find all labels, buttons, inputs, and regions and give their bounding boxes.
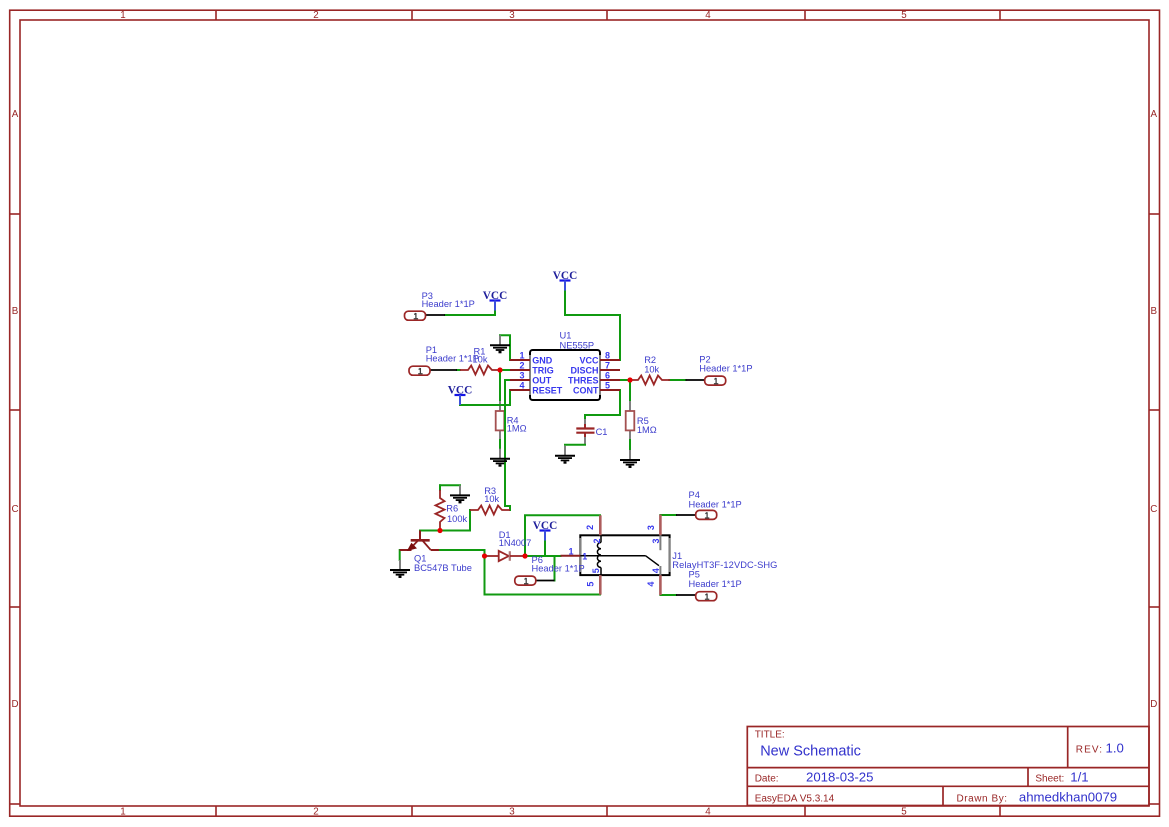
svg-text:2: 2 bbox=[313, 10, 318, 21]
svg-text:7: 7 bbox=[605, 360, 610, 370]
svg-text:TRIG: TRIG bbox=[532, 365, 554, 375]
svg-text:2: 2 bbox=[592, 538, 602, 543]
svg-text:5: 5 bbox=[591, 568, 601, 573]
svg-text:EasyEDA V5.3.14: EasyEDA V5.3.14 bbox=[755, 794, 835, 805]
svg-text:1: 1 bbox=[568, 546, 573, 556]
svg-text:C: C bbox=[1150, 504, 1157, 515]
svg-text:D: D bbox=[1150, 699, 1157, 710]
svg-text:CONT: CONT bbox=[573, 385, 599, 395]
svg-text:Header 1*1P: Header 1*1P bbox=[689, 579, 742, 589]
svg-text:B: B bbox=[1151, 306, 1158, 317]
svg-text:C: C bbox=[11, 504, 18, 515]
svg-text:1: 1 bbox=[120, 806, 125, 817]
svg-text:RESET: RESET bbox=[532, 385, 563, 395]
svg-text:6: 6 bbox=[605, 370, 610, 380]
svg-text:2018-03-25: 2018-03-25 bbox=[806, 769, 873, 784]
svg-text:10k: 10k bbox=[484, 494, 499, 504]
svg-text:1: 1 bbox=[519, 350, 524, 360]
svg-text:5: 5 bbox=[605, 380, 610, 390]
svg-text:1: 1 bbox=[582, 552, 587, 562]
svg-text:Header 1*1P: Header 1*1P bbox=[426, 354, 479, 364]
svg-text:OUT: OUT bbox=[532, 375, 552, 385]
svg-text:P5: P5 bbox=[689, 569, 700, 579]
svg-text:4: 4 bbox=[705, 806, 711, 817]
svg-text:4: 4 bbox=[651, 568, 661, 573]
svg-text:3: 3 bbox=[519, 370, 524, 380]
svg-text:3: 3 bbox=[646, 525, 656, 530]
svg-text:5: 5 bbox=[901, 806, 907, 817]
svg-text:1/1: 1/1 bbox=[1070, 769, 1088, 784]
svg-text:2: 2 bbox=[519, 360, 524, 370]
svg-text:TITLE:: TITLE: bbox=[755, 730, 785, 741]
svg-text:4: 4 bbox=[705, 10, 711, 21]
svg-text:5: 5 bbox=[585, 582, 595, 587]
svg-text:1MΩ: 1MΩ bbox=[507, 423, 527, 433]
svg-text:3: 3 bbox=[509, 10, 515, 21]
svg-text:GND: GND bbox=[532, 355, 553, 365]
svg-text:1.0: 1.0 bbox=[1106, 740, 1124, 755]
svg-text:D: D bbox=[11, 699, 18, 710]
svg-text:Date:: Date: bbox=[755, 773, 779, 784]
svg-text:Header 1*1P: Header 1*1P bbox=[689, 499, 742, 509]
svg-text:RelayHT3F-12VDC-SHG: RelayHT3F-12VDC-SHG bbox=[672, 560, 777, 570]
svg-text:C1: C1 bbox=[596, 427, 608, 437]
svg-text:R2: R2 bbox=[644, 355, 656, 365]
svg-text:1: 1 bbox=[120, 10, 125, 21]
svg-text:New Schematic: New Schematic bbox=[760, 744, 861, 760]
svg-text:Header 1*1P: Header 1*1P bbox=[422, 299, 475, 309]
svg-text:4: 4 bbox=[519, 380, 524, 390]
svg-text:A: A bbox=[12, 109, 19, 120]
svg-text:4: 4 bbox=[646, 582, 656, 587]
svg-text:VCC: VCC bbox=[579, 355, 599, 365]
svg-text:THRES: THRES bbox=[568, 375, 599, 385]
svg-text:Drawn By:: Drawn By: bbox=[957, 794, 1008, 805]
svg-text:10k: 10k bbox=[473, 354, 488, 364]
svg-text:3: 3 bbox=[651, 538, 661, 543]
svg-text:Sheet:: Sheet: bbox=[1035, 773, 1064, 784]
svg-text:10k: 10k bbox=[644, 365, 659, 375]
svg-text:A: A bbox=[1151, 109, 1158, 120]
svg-text:2: 2 bbox=[585, 525, 595, 530]
svg-text:DISCH: DISCH bbox=[570, 365, 598, 375]
svg-text:Header 1*1P: Header 1*1P bbox=[532, 564, 585, 574]
svg-text:3: 3 bbox=[509, 806, 515, 817]
svg-text:1MΩ: 1MΩ bbox=[637, 425, 657, 435]
svg-text:Header 1*1P: Header 1*1P bbox=[699, 364, 752, 374]
svg-text:8: 8 bbox=[605, 350, 610, 360]
svg-text:REV:: REV: bbox=[1076, 744, 1103, 755]
svg-text:BC547B Tube: BC547B Tube bbox=[414, 563, 472, 573]
svg-text:R6: R6 bbox=[446, 504, 458, 514]
svg-text:1N4007: 1N4007 bbox=[499, 538, 532, 548]
svg-text:5: 5 bbox=[901, 10, 907, 21]
svg-text:B: B bbox=[12, 306, 19, 317]
svg-text:2: 2 bbox=[313, 806, 318, 817]
svg-text:100k: 100k bbox=[447, 514, 468, 524]
svg-text:U1: U1 bbox=[560, 331, 572, 341]
svg-text:ahmedkhan0079: ahmedkhan0079 bbox=[1019, 790, 1117, 805]
svg-text:NE555P: NE555P bbox=[560, 340, 595, 350]
